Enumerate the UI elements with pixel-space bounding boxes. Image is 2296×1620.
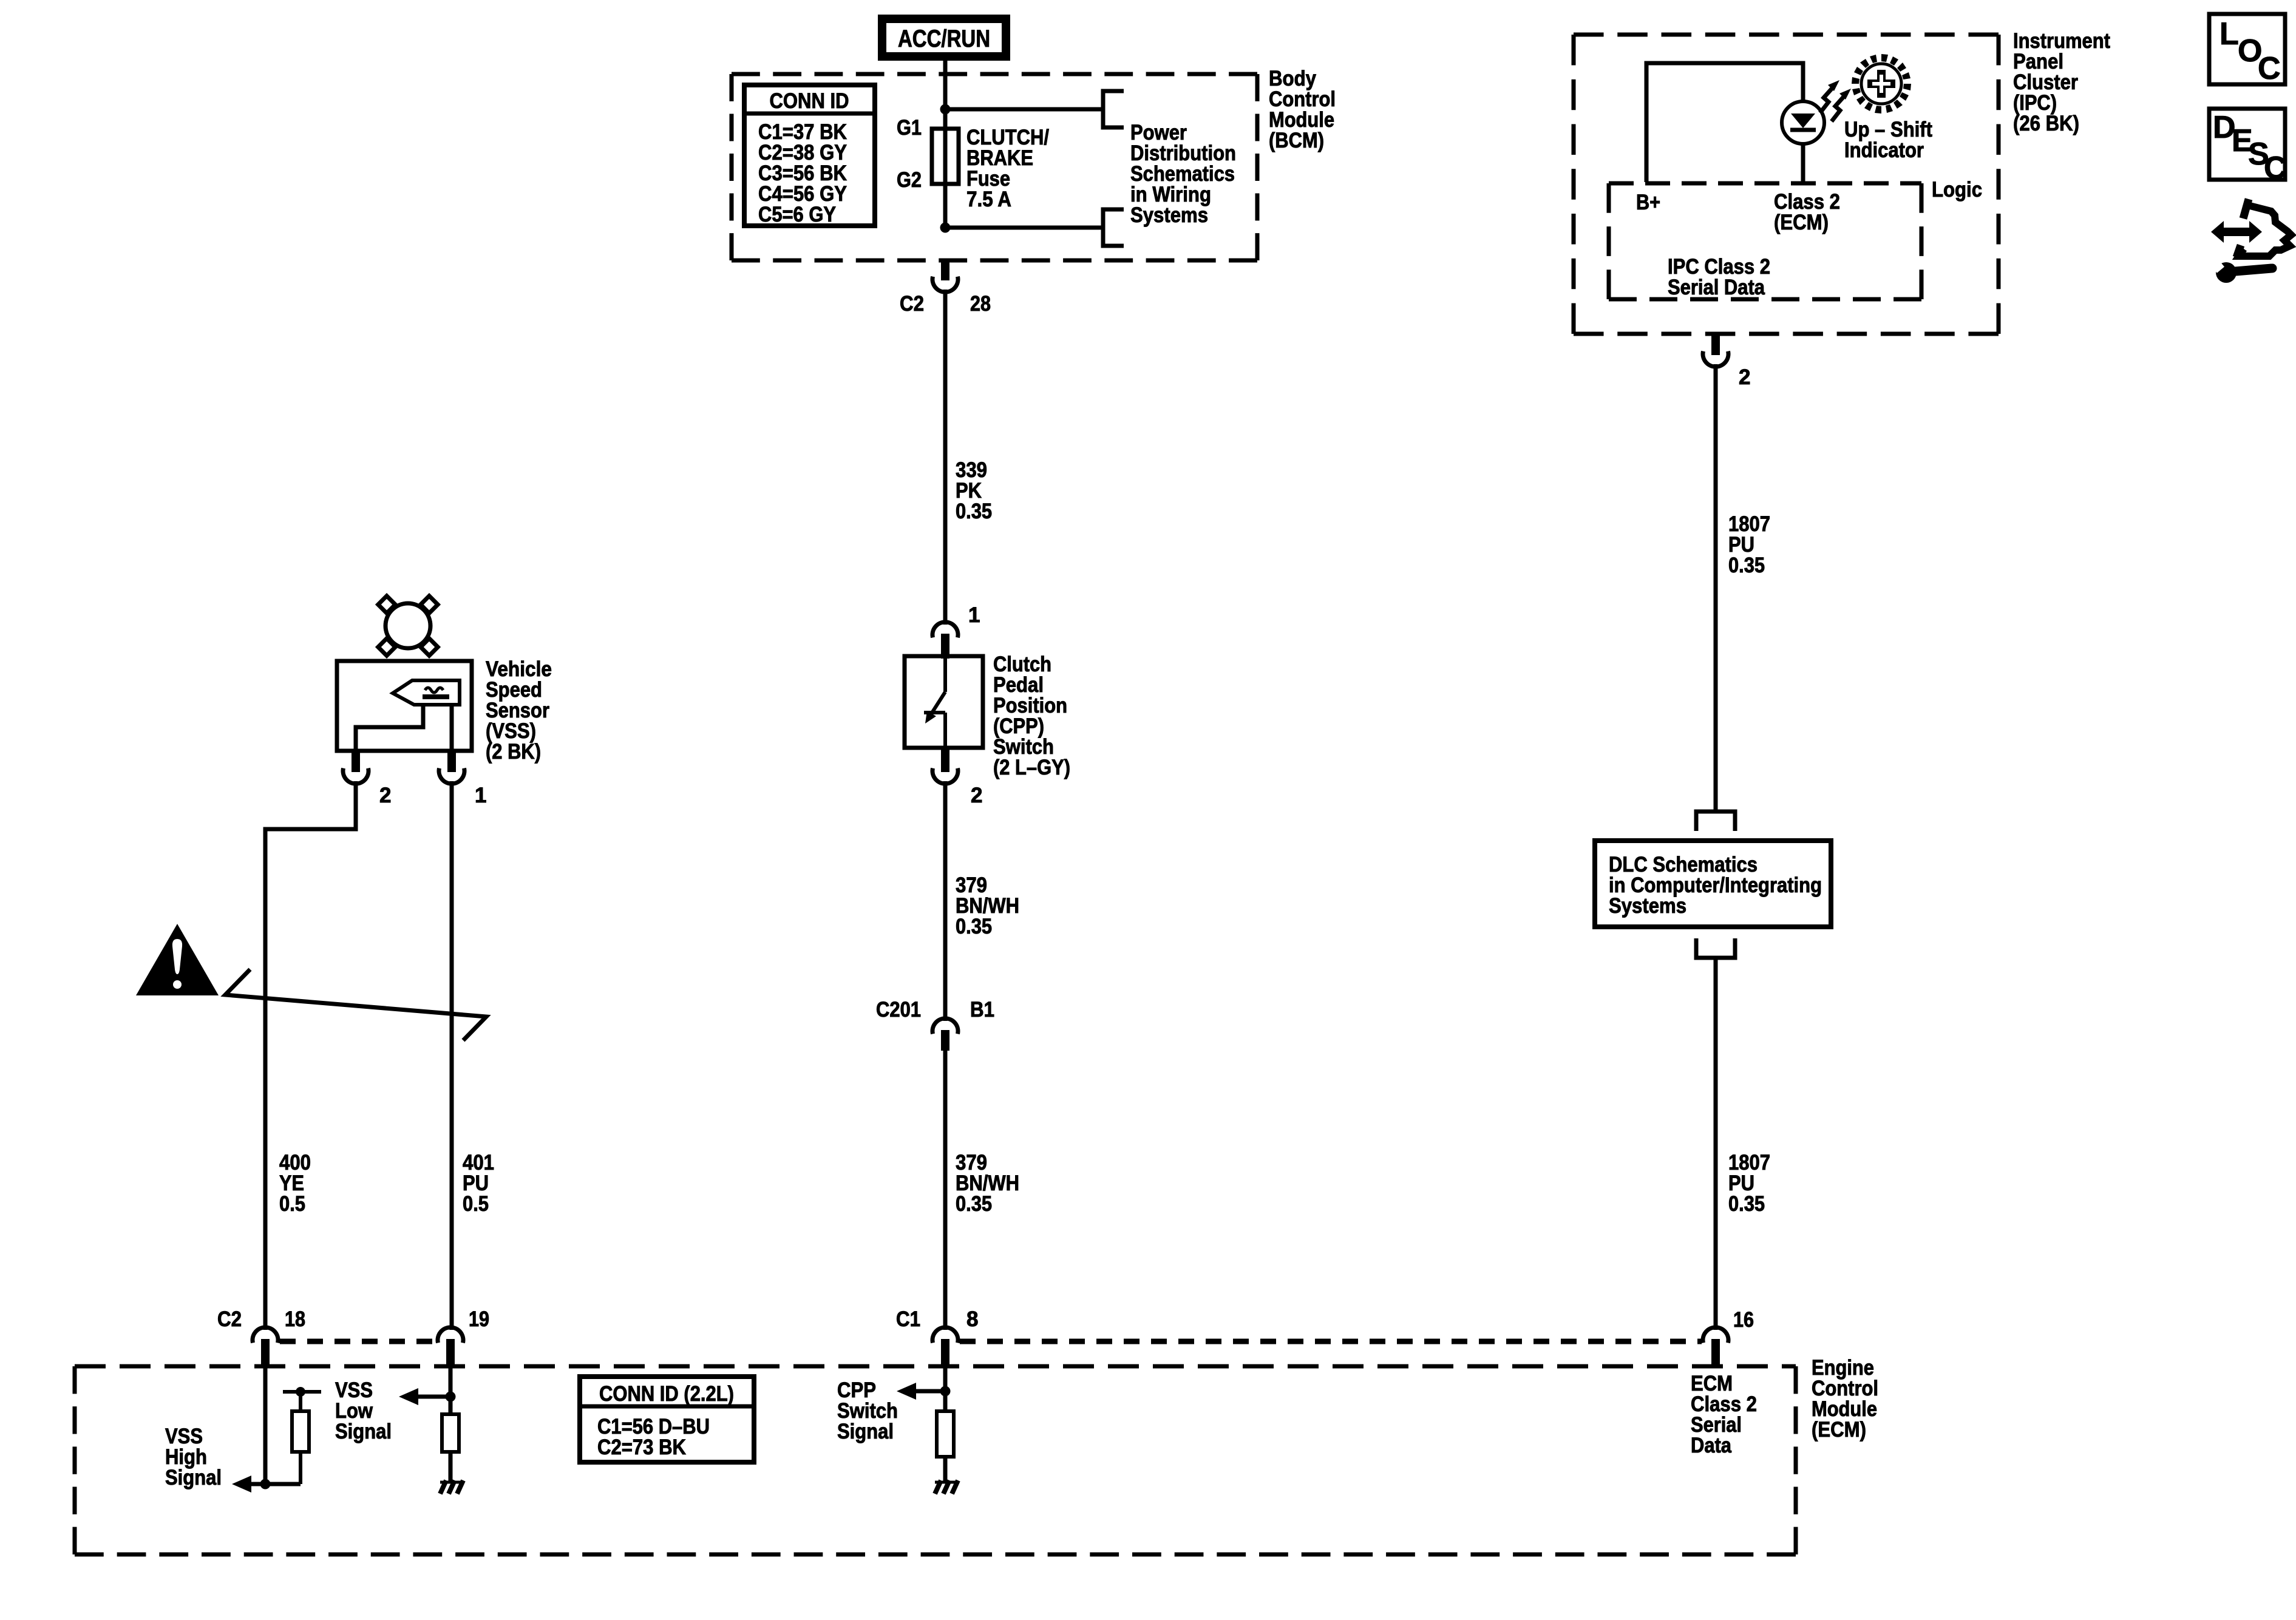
svg-text:1: 1 [968, 603, 980, 627]
svg-text:0.35: 0.35 [1728, 554, 1765, 577]
BCM CONN ID table [744, 85, 875, 226]
connector C1 dotted body line [960, 1339, 1702, 1344]
warning pointer slash [225, 969, 486, 1040]
svg-text:C: C [2264, 151, 2287, 186]
wire 400 YE 0.5 [265, 781, 356, 1330]
svg-text:(26 BK): (26 BK) [2013, 112, 2079, 135]
arrow CPP Switch Signal [897, 1383, 916, 1400]
connector pin 2 (CPP switch) [941, 748, 949, 772]
fuse CLUTCH/BRAKE 7.5A [943, 109, 948, 228]
svg-text:Systems: Systems [1609, 894, 1686, 918]
svg-text:C5=6 GY: C5=6 GY [758, 203, 836, 226]
svg-text:B1: B1 [970, 998, 994, 1022]
svg-text:Signal: Signal [335, 1420, 392, 1443]
svg-text:0.35: 0.35 [956, 915, 992, 938]
VSS inner sensor symbol [393, 680, 460, 705]
LOC icon box [2209, 14, 2285, 84]
warning note triangle [136, 924, 219, 995]
svg-text:2: 2 [971, 784, 982, 807]
svg-text:ACC/RUN: ACC/RUN [898, 25, 990, 52]
wire CPP signal inside ECM [943, 1368, 948, 1411]
ground VSS low [440, 1481, 462, 1484]
wire to Power Distribution (top) [945, 107, 1103, 112]
wire 379 BN/WH 0.35 (lower) [943, 1051, 948, 1330]
junction VSS high [260, 1479, 271, 1490]
junction node G2 feed [940, 223, 951, 233]
VSS box [337, 661, 472, 751]
svg-text:(2 L–GY): (2 L–GY) [993, 756, 1070, 779]
wire VSS low inside ECM [449, 1366, 453, 1414]
IPC dashed box [1574, 33, 1999, 37]
svg-text:Signal: Signal [837, 1420, 894, 1443]
resistor VSS low [442, 1414, 459, 1452]
connector C2 pin 28 (BCM) [941, 260, 949, 280]
up-shift gear icon [1861, 64, 1901, 104]
svg-text:2: 2 [379, 784, 391, 807]
connector C201 pin B1 [932, 1018, 958, 1034]
svg-text:L: L [2220, 16, 2239, 52]
svg-text:0.35: 0.35 [956, 500, 992, 523]
svg-text:0.5: 0.5 [279, 1192, 305, 1216]
svg-text:C: C [2258, 51, 2281, 86]
LED light rays [1820, 87, 1833, 113]
svg-text:7.5 A: 7.5 A [966, 188, 1011, 211]
svg-text:8: 8 [966, 1307, 978, 1331]
svg-text:(ECM): (ECM) [1812, 1418, 1866, 1442]
DLC Schematics box [1595, 841, 1831, 927]
junction VSS low [446, 1392, 456, 1402]
connector C2 pin 18 (ECM) [253, 1327, 278, 1343]
arrow VSS Low Signal [399, 1388, 418, 1405]
svg-text:28: 28 [970, 292, 991, 316]
svg-text:19: 19 [469, 1307, 489, 1331]
up-shift indicator LED [1782, 101, 1824, 144]
navigate icon outline arrow [2243, 199, 2249, 219]
svg-text:Signal: Signal [165, 1466, 222, 1490]
resistor CPP pulldown [937, 1411, 954, 1457]
svg-text:G1: G1 [897, 116, 922, 140]
svg-text:C2: C2 [217, 1307, 242, 1331]
svg-text:C2=73 BK: C2=73 BK [597, 1435, 686, 1459]
svg-text:(ECM): (ECM) [1774, 211, 1829, 234]
connector C2 pin 19 (ECM) [438, 1327, 463, 1343]
svg-text:Data: Data [1691, 1434, 1731, 1457]
CPP switch blade [943, 659, 947, 692]
navigate icon double arrow [2221, 228, 2252, 236]
CPP switch box [905, 656, 983, 748]
arrow VSS High Signal [232, 1476, 251, 1493]
wire DLC to bracket top [1714, 792, 1718, 812]
wire 339 PK 0.35 [943, 290, 948, 625]
IPC inner logic dashed box [1609, 181, 1921, 186]
svg-text:Serial Data: Serial Data [1668, 276, 1765, 299]
ground CPP [935, 1481, 957, 1484]
wire B+ to LED loop [1646, 63, 1803, 182]
svg-text:CONN ID (2.2L): CONN ID (2.2L) [599, 1382, 734, 1406]
wire to ground (VSS low) [449, 1452, 453, 1481]
junction node G1 feed [940, 104, 951, 115]
bias bar VSS high [283, 1390, 321, 1394]
navigate icon wrench [2216, 262, 2237, 283]
wire VSS high inside ECM [263, 1366, 268, 1484]
svg-text:16: 16 [1733, 1308, 1754, 1332]
DESC icon box [2209, 109, 2285, 180]
connector VSS pin 2 [352, 751, 360, 772]
svg-text:CONN ID: CONN ID [770, 89, 849, 113]
svg-text:2: 2 [1739, 365, 1750, 389]
off-page bracket below DLC [1696, 938, 1735, 958]
svg-text:0.5: 0.5 [463, 1192, 489, 1216]
ECM CONN ID (2.2L) table [580, 1377, 754, 1462]
svg-text:C1: C1 [896, 1307, 920, 1331]
wire 379 BN/WH 0.35 (upper) [943, 781, 948, 1021]
svg-text:C201: C201 [876, 998, 921, 1022]
junction CPP signal [940, 1386, 951, 1397]
wire to Power Distribution (bottom) [945, 226, 1103, 230]
ECM module dashed box [75, 1364, 1796, 1369]
connector pin 16 (ECM) [1703, 1327, 1728, 1343]
connector VSS pin 1 [447, 751, 456, 772]
svg-text:(BCM): (BCM) [1269, 129, 1324, 152]
power feed ACC/RUN box [882, 19, 1006, 56]
wire 1807 PU 0.35 (lower) [1714, 958, 1718, 1330]
svg-text:Indicator: Indicator [1844, 138, 1924, 162]
wire to ground (CPP) [943, 1457, 948, 1481]
svg-text:G2: G2 [897, 168, 922, 192]
wire 1807 PU 0.35 (upper) [1714, 364, 1718, 792]
svg-text:Logic: Logic [1932, 178, 1982, 202]
off-page bracket above DLC [1696, 812, 1735, 831]
svg-text:0.35: 0.35 [1728, 1192, 1765, 1216]
connector C2 pins 18-19 dotted body line [280, 1339, 436, 1344]
svg-text:0.35: 0.35 [956, 1192, 992, 1216]
VSS sensor rotor icon [385, 603, 430, 648]
svg-text:(2 BK): (2 BK) [486, 740, 541, 764]
svg-text:C2: C2 [900, 292, 924, 316]
connector pin 1 (CPP switch) [932, 622, 958, 638]
off-page bracket bottom (Power Distribution) [1103, 209, 1124, 246]
resistor VSS high bias [299, 1452, 302, 1484]
wire 401 PU 0.5 [450, 781, 454, 1330]
wire ACC/RUN to fuse (BCM feed) [943, 57, 948, 109]
off-page bracket top (Power Distribution) [1103, 91, 1124, 127]
svg-text:18: 18 [285, 1307, 305, 1331]
connector C1 pin 8 (ECM) [932, 1327, 958, 1343]
svg-text:B+: B+ [1636, 191, 1660, 214]
svg-text:1: 1 [475, 784, 486, 807]
BCM module dashed box [732, 72, 1257, 76]
svg-text:Systems: Systems [1130, 203, 1208, 227]
connector IPC pin 2 [1711, 334, 1720, 355]
